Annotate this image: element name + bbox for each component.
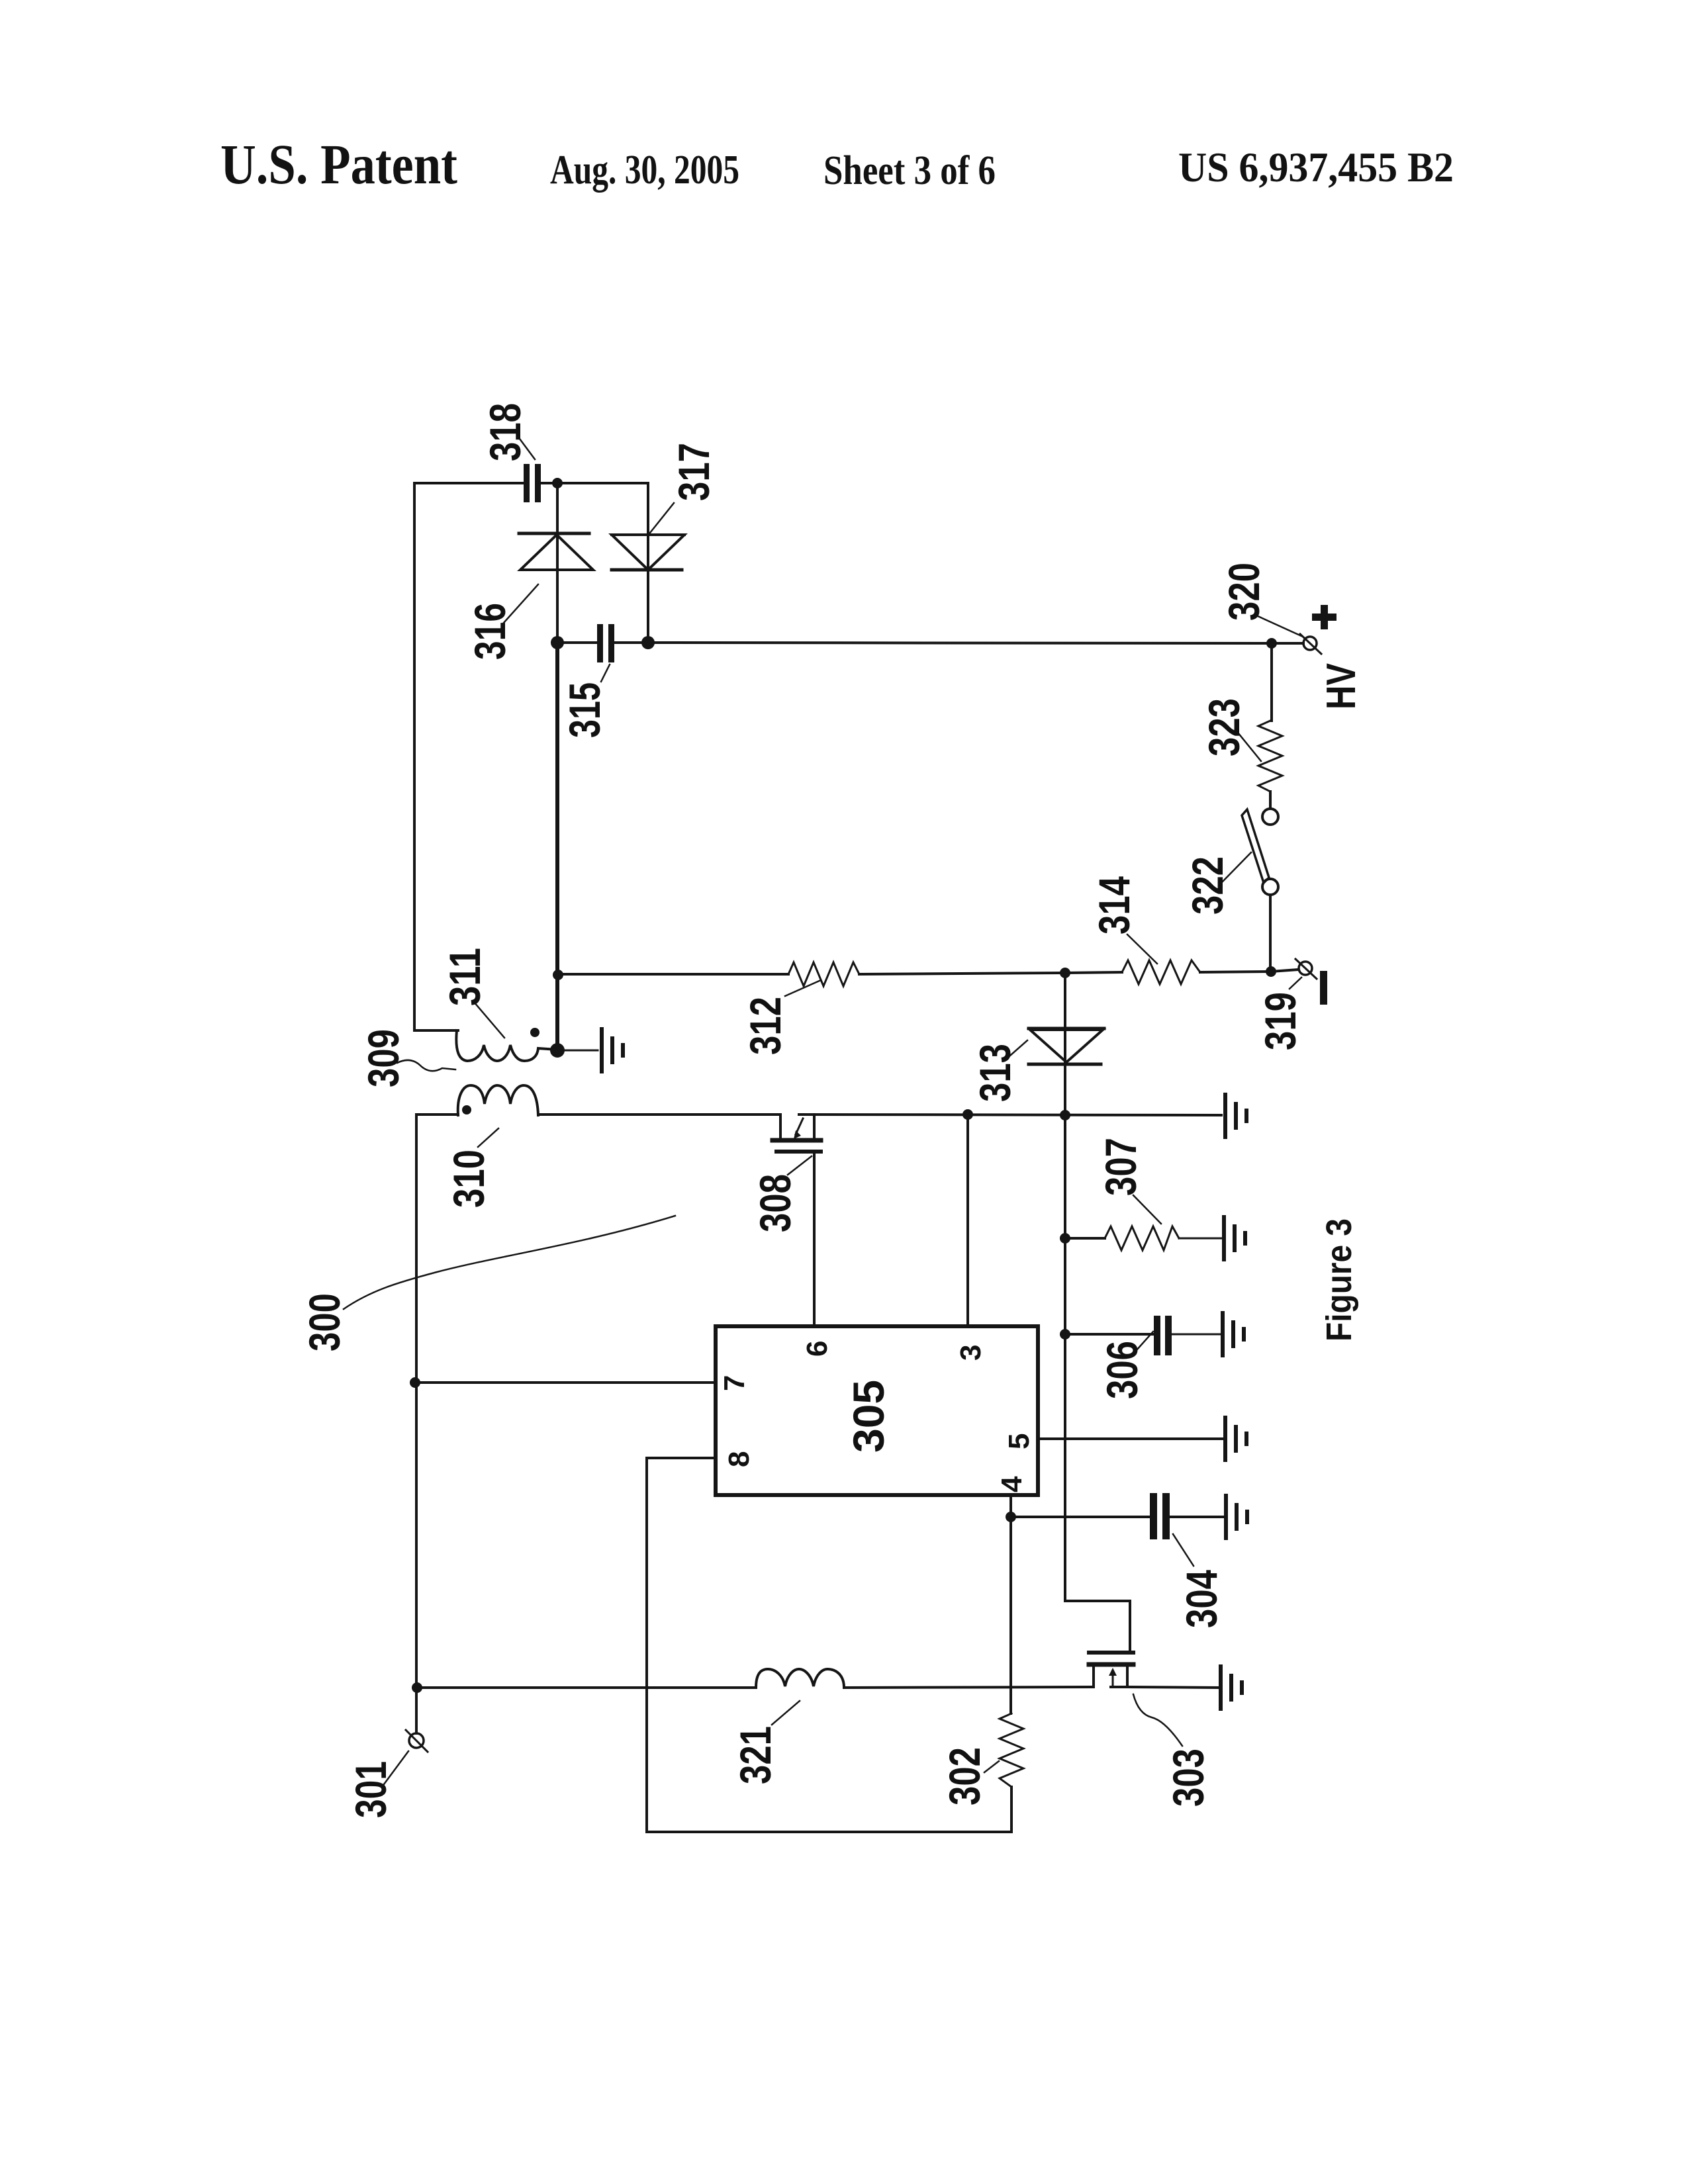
leader 301 (382, 1751, 408, 1787)
wire vertical node B down (555, 643, 559, 1050)
phasing dot winding310 (462, 1105, 471, 1115)
capacitor C306 (1154, 1316, 1172, 1355)
junction pin4 (1006, 1512, 1016, 1522)
wire Q308 gate to pin6 (813, 1154, 816, 1326)
mosfet Q308 gate bar (776, 1150, 821, 1154)
wire pin4 junction to cap304 (1011, 1516, 1150, 1518)
junction HV rail (1266, 638, 1277, 649)
svg-text:301: 301 (346, 1761, 395, 1818)
resistor R302 (1000, 1713, 1023, 1787)
ground G2 (1225, 1095, 1246, 1137)
wire pin5 to ground G5 (1038, 1437, 1223, 1440)
junction 1609 rail (1060, 1110, 1070, 1120)
wire drain rail right segment (799, 1115, 1221, 1115)
svg-text:Aug. 30, 2005: Aug. 30, 2005 (550, 148, 739, 193)
leader 312 (785, 980, 821, 996)
svg-text:305: 305 (844, 1380, 893, 1453)
wire pin7 (415, 1381, 716, 1384)
wire pin4 down (1009, 1495, 1012, 1517)
wire node B to cap315 (557, 641, 597, 644)
svg-text:315: 315 (560, 682, 609, 738)
diode D313 top bar (1029, 1027, 1104, 1030)
plus sign (1312, 605, 1336, 629)
junction R307 (1060, 1233, 1070, 1244)
svg-text:5: 5 (1003, 1433, 1035, 1449)
resistor R312 (788, 962, 859, 986)
mosfet Q303 left stub (1092, 1666, 1095, 1687)
wire drain rail (538, 1113, 780, 1116)
diode D317 triangle (612, 535, 684, 570)
ground G4 (1223, 1313, 1244, 1355)
junction 1475 (553, 970, 563, 980)
resistor R323 (1258, 721, 1282, 792)
ground G5 (1225, 1418, 1246, 1460)
svg-text:306: 306 (1098, 1341, 1147, 1399)
ground G6 (1226, 1496, 1247, 1538)
leader 303 (1133, 1694, 1182, 1746)
leader 309 (397, 1060, 455, 1071)
svg-text:Sheet 3 of 6: Sheet 3 of 6 (823, 148, 996, 193)
junction input (412, 1682, 422, 1693)
diode D316 bar (519, 532, 589, 535)
resistor R307 (1105, 1226, 1179, 1250)
svg-text:6: 6 (801, 1341, 833, 1357)
wire node B to ground G1 (557, 1050, 598, 1052)
svg-text:314: 314 (1090, 876, 1139, 934)
svg-text:321: 321 (731, 1726, 780, 1784)
wire pin4 junction down to R302 (1009, 1517, 1012, 1713)
junction node A (552, 478, 563, 488)
wire diode316 branch (556, 483, 559, 643)
svg-text:U.S. Patent: U.S. Patent (220, 132, 457, 196)
wire resistor323 to switch (1269, 792, 1272, 809)
mosfet Q308 arrow (796, 1118, 803, 1134)
leader 306 (1137, 1332, 1153, 1350)
mosfet Q308 channel bar (773, 1138, 821, 1143)
wire junction to resistor 323 (1270, 643, 1273, 721)
capacitor C318 (524, 464, 541, 502)
svg-text:Figure 3: Figure 3 (1319, 1218, 1359, 1342)
HEADER-TEXTS (220, 132, 1454, 196)
wire to terminal 320 (1272, 642, 1303, 645)
leader 308 (788, 1156, 812, 1175)
wire Q303 source to ground G7 (1127, 1687, 1219, 1688)
wire cap315 to node C (614, 641, 648, 644)
terminal 320 circle (1303, 637, 1317, 650)
junction winding311 right (550, 1043, 565, 1058)
wire cap318 to corner (541, 482, 648, 484)
wire rail 1470 left (558, 973, 788, 976)
diode D317 bottom bar (612, 569, 682, 572)
wire top-left loop (414, 483, 524, 1030)
ground G7 (1221, 1666, 1242, 1709)
wire R312 to junction (859, 973, 1065, 974)
svg-text:300: 300 (300, 1293, 349, 1351)
svg-text:317: 317 (669, 443, 718, 501)
wire diode317 branch (647, 483, 649, 643)
leader 310 (478, 1128, 498, 1147)
svg-text:304: 304 (1177, 1570, 1226, 1628)
svg-text:312: 312 (741, 997, 790, 1055)
leader 300 curve (344, 1216, 675, 1309)
leader 323 (1235, 729, 1261, 761)
resistor R314 (1122, 960, 1200, 984)
ground G3 (1224, 1217, 1245, 1259)
wire HV rail (648, 643, 1272, 643)
leader 317 (650, 503, 674, 533)
diode D313 triangle (1030, 1030, 1103, 1062)
terminal 301 circle (409, 1733, 424, 1748)
svg-text:303: 303 (1164, 1749, 1213, 1807)
wire winding310 left to input column (416, 1113, 458, 1116)
leader 311 (474, 1002, 504, 1038)
wire pin3 (966, 1115, 969, 1326)
diode D317 bar (612, 533, 684, 536)
wire input line (417, 1686, 756, 1689)
wire to terminal 319 (1271, 970, 1298, 972)
IC U305 box (716, 1326, 1038, 1495)
svg-text:US 6,937,455 B2: US 6,937,455 B2 (1178, 144, 1454, 191)
leader 319 (1289, 978, 1301, 989)
svg-text:316: 316 (465, 603, 514, 660)
svg-text:311: 311 (440, 948, 489, 1006)
junction C306 (1060, 1329, 1070, 1340)
leader 302 (984, 1761, 999, 1772)
junction pin7 (410, 1377, 420, 1388)
wire junction to R314 (1065, 972, 1122, 973)
leader 314 (1127, 934, 1157, 964)
svg-text:302: 302 (940, 1747, 989, 1805)
svg-text:320: 320 (1219, 563, 1268, 621)
svg-text:322: 322 (1183, 856, 1232, 915)
junction 1609-1470 (1060, 968, 1070, 978)
capacitor C304 (1150, 1493, 1170, 1539)
mosfet Q308 left stub (779, 1115, 782, 1138)
wire junction to cap306 (1065, 1333, 1154, 1336)
wire vertical 1609 net (1064, 973, 1066, 1601)
leader 318 (520, 439, 535, 459)
switch 322 blade (1242, 809, 1269, 883)
diode D313 bottom bar (1029, 1063, 1101, 1066)
diode D316 triangle (520, 535, 593, 570)
svg-text:3: 3 (955, 1345, 987, 1361)
svg-text:323: 323 (1199, 698, 1248, 756)
junction pin3 rail (962, 1109, 973, 1120)
leader 316 (504, 584, 538, 623)
mosfet Q303 channel bar (1089, 1662, 1133, 1667)
wire L321 to mosfet303 (844, 1687, 1094, 1688)
mosfet Q303 arrow (1112, 1673, 1114, 1685)
wire R314 to junction 319 (1200, 972, 1271, 972)
svg-text:310: 310 (444, 1150, 493, 1208)
leader 322 (1222, 852, 1251, 882)
leader 321 (772, 1701, 800, 1725)
phasing dot winding311 (530, 1028, 539, 1037)
wire R307 to ground G3 (1179, 1238, 1222, 1240)
svg-text:307: 307 (1096, 1138, 1145, 1196)
wire pin8 loop (647, 1458, 716, 1832)
switch 322 top contact (1262, 809, 1278, 825)
junction node B (551, 636, 564, 649)
wire cap304 to ground G6 (1170, 1516, 1224, 1518)
wire junction to R307 (1066, 1237, 1105, 1240)
svg-text:319: 319 (1256, 992, 1305, 1050)
leader 320 (1256, 615, 1301, 636)
wire gate feed step (1065, 1601, 1130, 1651)
svg-text:4: 4 (996, 1476, 1028, 1492)
svg-text:HV: HV (1319, 663, 1364, 709)
terminal 319 circle (1299, 962, 1312, 975)
mosfet Q303 gate bar (1089, 1651, 1133, 1655)
transformer secondary winding 311 (456, 1030, 557, 1061)
leader 315 (601, 664, 610, 682)
svg-text:309: 309 (359, 1029, 408, 1087)
mosfet Q308 right stub (813, 1115, 816, 1138)
ground G1 (602, 1029, 623, 1071)
leader 307 (1133, 1195, 1161, 1224)
svg-text:318: 318 (481, 403, 530, 461)
inductor L321 (756, 1669, 844, 1688)
leader 304 (1173, 1534, 1194, 1566)
junction node C (641, 636, 655, 649)
leader 313 (1005, 1040, 1027, 1060)
wire left input column (415, 1115, 418, 1733)
wire cap306 to ground G4 (1172, 1334, 1221, 1336)
svg-text:7: 7 (718, 1375, 751, 1391)
switch 322 bottom contact (1262, 879, 1278, 895)
capacitor C315 (597, 624, 614, 662)
svg-text:313: 313 (970, 1044, 1019, 1102)
wire R302 bottom (647, 1787, 1011, 1832)
mosfet Q303 right stub (1126, 1666, 1129, 1687)
junction 1920-1468 (1266, 966, 1276, 977)
svg-text:8: 8 (723, 1451, 755, 1467)
wire switch to minus rail (1269, 895, 1272, 972)
svg-text:308: 308 (751, 1174, 800, 1232)
transformer primary winding 310 (458, 1085, 538, 1115)
minus sign (1320, 971, 1327, 1005)
wire Q303 channel underpass (1111, 1686, 1127, 1688)
